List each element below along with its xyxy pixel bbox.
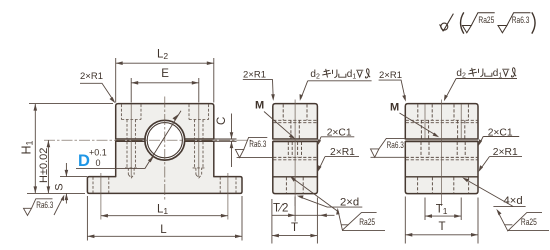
horizontal centerline xyxy=(44,139,251,141)
counterbore symbol right xyxy=(485,73,492,77)
mid hidden bore lines xyxy=(273,104,317,193)
mid vertical centerline xyxy=(294,100,296,207)
surface Ra6.3 left of right view xyxy=(371,138,405,157)
cap hidden counterbore left xyxy=(93,104,236,193)
depth symbol right xyxy=(502,69,509,76)
svg-text:M: M xyxy=(390,102,399,114)
FRONT VIEW xyxy=(20,49,252,241)
svg-text:E: E xyxy=(161,68,169,80)
open paren xyxy=(461,12,464,33)
leader for D through bore xyxy=(76,111,181,169)
right cap block xyxy=(405,104,478,139)
dimension H +-0.02 xyxy=(47,140,49,193)
svg-text:2×R1: 2×R1 xyxy=(243,70,266,81)
right slit band xyxy=(405,139,478,142)
svg-text:0: 0 xyxy=(96,158,101,168)
mid flange top line xyxy=(273,176,318,178)
TOP RIGHT NOTE xyxy=(440,12,535,33)
svg-text:H±0.02: H±0.02 xyxy=(38,148,50,183)
surface finish Ra6.3 bottom left xyxy=(24,197,64,216)
svg-text:L1: L1 xyxy=(157,204,168,217)
svg-text:T: T xyxy=(439,221,446,233)
svg-text:S: S xyxy=(54,183,66,190)
right lower body xyxy=(405,142,478,194)
dim T mid xyxy=(272,235,318,237)
katakana kiri (drawn) right xyxy=(468,68,483,77)
svg-text:Ra6.3: Ra6.3 xyxy=(512,15,530,26)
svg-text:+0.1: +0.1 xyxy=(89,148,107,158)
katakana kiri (drawn) mid xyxy=(322,69,337,78)
mid slit band xyxy=(273,139,318,142)
svg-text:C: C xyxy=(216,117,228,125)
svg-text:Ra25: Ra25 xyxy=(478,15,494,26)
surface Ra25 mid xyxy=(338,211,385,230)
right hidden screw counterbores (2 holes) xyxy=(418,104,432,139)
mid hidden tap below slit xyxy=(288,142,301,158)
mid hidden screw counterbore xyxy=(283,104,307,139)
front lower T body xyxy=(87,141,242,193)
label d2 kiri d1 depth l (right) xyxy=(456,68,502,79)
note Ra25 symbol xyxy=(462,13,494,33)
front slit gap lines extended right for C dim xyxy=(116,138,237,140)
label d2 kiri d1 depth l (mid) xyxy=(310,69,356,80)
note Ra6.3 symbol xyxy=(498,13,531,33)
right hidden taps below slit xyxy=(421,142,465,158)
svg-text:2×d: 2×d xyxy=(340,196,359,208)
svg-text:Ra25: Ra25 xyxy=(359,217,375,228)
dimension S xyxy=(60,176,87,178)
svg-text:M: M xyxy=(255,100,264,112)
script ell right xyxy=(511,68,516,77)
right hole centerlines xyxy=(424,104,426,139)
right hidden flange holes xyxy=(418,177,433,193)
dimension H1 xyxy=(29,103,113,105)
svg-text:Ra6.3: Ra6.3 xyxy=(36,200,53,211)
svg-text:L2: L2 xyxy=(157,49,168,62)
flange hole centerlines xyxy=(100,173,102,220)
svg-text:Ra25: Ra25 xyxy=(521,217,537,228)
right hidden bore lines xyxy=(406,104,478,193)
svg-text:2×R1: 2×R1 xyxy=(80,71,103,82)
all-over surface symbol circle check xyxy=(440,14,454,32)
dim T/2 xyxy=(272,197,335,244)
dimension L xyxy=(86,196,88,241)
bore circle inner xyxy=(147,123,182,158)
svg-text:2×R1: 2×R1 xyxy=(379,70,402,81)
lower block hidden tap holes right xyxy=(193,142,205,178)
vertical centerline xyxy=(164,97,166,201)
surface Ra25 right xyxy=(498,212,549,231)
svg-text:Ra6.3: Ra6.3 xyxy=(387,140,404,151)
front cap block body xyxy=(116,104,214,139)
cap hidden counterbore right xyxy=(189,104,209,139)
mid cap block xyxy=(273,104,318,139)
dimension E xyxy=(131,78,199,103)
cap hole centerlines xyxy=(130,104,132,177)
svg-text:Ra6.3: Ra6.3 xyxy=(249,139,266,150)
depth symbol mid xyxy=(356,70,363,77)
close paren xyxy=(532,12,535,33)
dimension C right of front view xyxy=(231,114,233,139)
dim T right xyxy=(405,197,478,244)
dim T1 xyxy=(425,198,461,221)
surface Ra6.3 left of mid xyxy=(235,137,272,157)
RIGHT VIEW xyxy=(371,68,550,244)
lower block hidden tap holes left xyxy=(125,142,137,178)
svg-text:L: L xyxy=(160,224,167,236)
svg-text:T1: T1 xyxy=(436,204,448,217)
svg-text:4×d: 4×d xyxy=(504,195,523,207)
dimension L1 xyxy=(101,215,228,217)
bore circle outer D xyxy=(145,120,185,160)
script ell mid xyxy=(365,69,370,78)
svg-text:T: T xyxy=(291,222,298,234)
dimension L2 xyxy=(116,58,214,103)
flange hidden mounting holes xyxy=(93,177,236,193)
MIDDLE VIEW xyxy=(235,69,385,244)
leader for d2 text right xyxy=(445,79,517,100)
svg-text:T∕2: T∕2 xyxy=(273,202,288,214)
counterbore symbol mid xyxy=(339,74,346,78)
Ra25 leader to flange top (mid) xyxy=(291,177,338,211)
right flange top line xyxy=(405,176,478,178)
mid hidden flange holes xyxy=(286,177,303,193)
right vertical centerline xyxy=(441,100,443,207)
leader for d2 text mid xyxy=(301,81,372,99)
mid lower body xyxy=(273,142,318,194)
